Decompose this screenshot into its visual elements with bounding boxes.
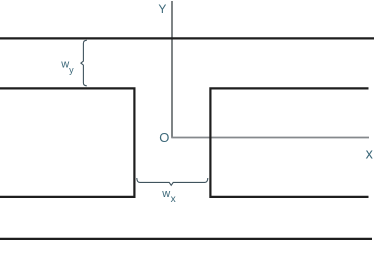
svg-text:wy: wy	[60, 59, 74, 75]
svg-text:O: O	[159, 130, 169, 145]
bottom conductor line	[0, 238, 372, 240]
svg-text:x: x	[366, 147, 374, 163]
svg-text:wx: wx	[161, 188, 175, 205]
right conductor block	[210, 88, 368, 196]
left conductor block	[0, 88, 134, 196]
brace w_y	[81, 40, 87, 86]
Y axis	[171, 1, 173, 138]
X axis	[171, 137, 369, 139]
svg-text:Y: Y	[158, 2, 166, 16]
brace w_x	[137, 178, 208, 185]
top conductor line	[0, 37, 374, 39]
